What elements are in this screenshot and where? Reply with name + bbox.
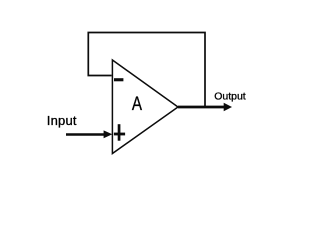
input wire bbox=[66, 133, 105, 136]
op-amp U1 bbox=[112, 60, 178, 154]
svg-text:Input: Input bbox=[47, 113, 77, 128]
output wire bbox=[178, 106, 225, 109]
svg-text:Output: Output bbox=[214, 90, 246, 102]
feedback wire bbox=[88, 33, 205, 107]
inverting input marker (-) bbox=[114, 78, 123, 81]
input arrowhead bbox=[104, 130, 113, 138]
non-inverting input marker (+) bbox=[114, 124, 125, 141]
output arrowhead bbox=[224, 103, 232, 112]
svg-text:A: A bbox=[132, 92, 142, 114]
